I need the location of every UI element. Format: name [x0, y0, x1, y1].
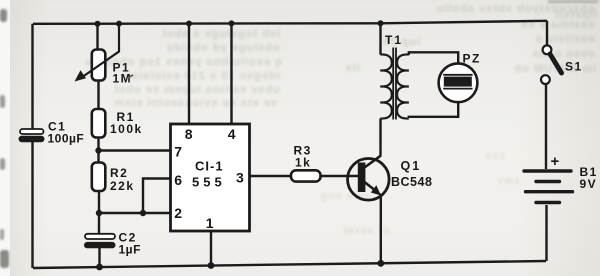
node pin1/ground — [208, 262, 215, 269]
wire pin 3 to R3 — [250, 175, 292, 177]
wire R3 to Q1 base — [320, 175, 358, 177]
wire switch to battery — [545, 84, 547, 169]
battery B1 plate 1 (long +) — [524, 169, 571, 172]
wire pin 4 stub — [230, 23, 232, 124]
svg-text:T1: T1 — [385, 33, 403, 47]
switch S1 upper contact — [543, 45, 552, 54]
wire right rail to switch — [546, 21, 548, 46]
node top rail pin 8 — [186, 21, 192, 27]
wire R2 to C2 — [98, 191, 100, 234]
svg-text:BC548: BC548 — [391, 175, 432, 189]
transformer T1 secondary winding — [397, 54, 409, 118]
battery B1 plate 4 (short) — [536, 201, 560, 204]
piezo PZ electrode lines — [443, 75, 472, 89]
wire top supply rail — [33, 21, 547, 24]
wire R1 to R2 — [97, 138, 99, 163]
transistor Q1 base bar — [358, 163, 366, 193]
svg-text:555: 555 — [192, 175, 226, 190]
piezo PZ disc — [444, 77, 472, 87]
wire pin 2 — [99, 212, 171, 214]
capacitor C1 top plate — [20, 129, 44, 134]
transistor Q1 emitter stroke — [365, 182, 375, 190]
svg-text:8: 8 — [185, 126, 193, 142]
battery B1 plate 2 (short) — [536, 180, 560, 183]
node C2/ground — [96, 264, 103, 271]
wire P1 top — [96, 24, 98, 50]
wire T1 primary top — [379, 23, 381, 54]
svg-text:+: + — [551, 153, 560, 170]
svg-text:PZ: PZ — [463, 52, 481, 66]
svg-text:9V: 9V — [580, 177, 598, 191]
svg-text:7: 7 — [174, 144, 182, 160]
resistor R2 — [92, 163, 106, 192]
node top rail P1 wiper — [116, 21, 122, 27]
piezo transducer PZ circle — [439, 63, 478, 102]
svg-text:1: 1 — [206, 215, 214, 231]
wire pin 1 stub — [210, 231, 212, 266]
svg-text:4: 4 — [228, 126, 236, 142]
svg-text:100µF: 100µF — [48, 132, 85, 146]
wire C2 to ground — [98, 248, 100, 267]
transformer T1 primary winding — [380, 54, 392, 118]
node top rail T1 — [378, 20, 384, 26]
wire PZ internal top — [457, 63, 459, 75]
transistor Q1 circle — [348, 159, 390, 201]
svg-text:2: 2 — [174, 205, 182, 221]
capacitor C2 bottom plate — [84, 242, 116, 248]
potentiometer P1 body — [92, 50, 106, 81]
wire P1 to R1 — [97, 81, 99, 110]
wire pin 6 elbow — [143, 179, 171, 214]
wire pin 8 stub — [188, 24, 190, 125]
svg-text:S1: S1 — [565, 60, 583, 74]
node R2/C2/pin2 — [96, 210, 102, 216]
transistor Q1 emitter arrow — [371, 185, 381, 195]
wire T1 secondary top to PZ — [409, 52, 458, 64]
svg-text:6: 6 — [174, 172, 182, 188]
svg-text:R2: R2 — [110, 166, 128, 180]
resistor R1 — [92, 109, 106, 138]
switch S1 lower contact — [541, 75, 550, 84]
node top rail pin 4 — [229, 20, 235, 26]
op-amp / timer IC CI-1 box — [171, 124, 250, 231]
svg-text:100k: 100k — [110, 122, 143, 136]
svg-text:CI-1: CI-1 — [195, 159, 224, 174]
svg-text:22k: 22k — [110, 179, 135, 193]
svg-text:1µF: 1µF — [119, 243, 141, 257]
wire battery to ground rail — [545, 205, 547, 261]
node pin6/pin2 — [140, 210, 146, 216]
svg-text:3: 3 — [236, 170, 244, 186]
transformer T1 core — [393, 48, 396, 120]
wire pin 7 — [99, 149, 171, 151]
capacitor C1 bottom plate — [19, 136, 45, 142]
wire bottom ground rail — [33, 261, 546, 268]
svg-text:1k: 1k — [295, 156, 311, 170]
node emitter/ground — [377, 260, 384, 267]
resistor R3 — [291, 170, 321, 181]
print-through ghost text (decorative) — [300, 3, 595, 15]
svg-text:Q1: Q1 — [401, 159, 422, 173]
node R1/R2/pin7 — [95, 147, 101, 153]
wire Q1 emitter to ground rail — [380, 194, 382, 264]
wire left branch (C1 branch) lower — [31, 142, 33, 268]
switch S1 lever — [550, 54, 562, 73]
svg-text:1M: 1M — [113, 72, 133, 86]
potentiometer P1 wiper arrow — [83, 24, 119, 77]
scan page edge strip — [0, 0, 10, 276]
node top rail P1 left — [95, 21, 101, 27]
wire PZ internal bottom — [457, 89, 459, 103]
transistor Q1 collector stroke — [365, 155, 382, 167]
battery B1 plate 3 (long) — [526, 190, 573, 193]
wire left branch (C1 branch) upper — [31, 24, 33, 129]
wire T1 secondary bottom to PZ — [409, 102, 458, 118]
wire T1 primary bottom to Q1 collector — [379, 119, 381, 156]
capacitor C2 top plate — [85, 234, 115, 239]
